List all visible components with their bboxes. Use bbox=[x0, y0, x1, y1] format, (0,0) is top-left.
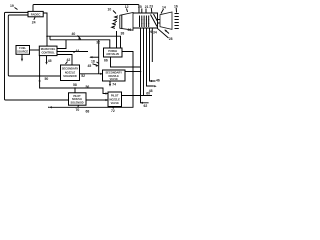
arrow into secondary valve line y=64.5 with label 45 bbox=[93, 64, 98, 66]
exhaust dashes bbox=[175, 13, 179, 15]
PILOT NOZZLE SOLENOID box bbox=[69, 93, 87, 105]
svg-text:36: 36 bbox=[128, 28, 132, 32]
wire: secondary output right to riser bbox=[125, 71, 141, 73]
svg-text:18: 18 bbox=[91, 60, 95, 64]
svg-text:44: 44 bbox=[76, 49, 80, 53]
transition duct diagonals bbox=[151, 15, 158, 27]
wire: purge valve bottom output to riser bbox=[111, 57, 141, 67]
wire: branch down from y=39 to y=44 run bbox=[50, 40, 110, 48]
wire: FADEC left lower to second vertical down to y=76 rail bbox=[8, 15, 60, 76]
wire: fuel source drain stub with arrow bbox=[21, 54, 23, 59]
wire: main fuel control drain stub with arrow bbox=[46, 56, 48, 63]
riser pipe 62 down to drain bbox=[141, 28, 149, 103]
svg-text:28: 28 bbox=[169, 37, 173, 41]
svg-text:VALVE: VALVE bbox=[110, 77, 119, 81]
wire: vertical from y44 run down to secondary valve top bbox=[98, 40, 100, 74]
junction node at control line branch bbox=[46, 35, 48, 37]
svg-text:58: 58 bbox=[73, 83, 77, 87]
svg-text:14: 14 bbox=[162, 6, 166, 10]
wire: drop from MFC bottom through rail down and right to pilot box bbox=[40, 56, 108, 94]
svg-text:NOZZLE: NOZZLE bbox=[110, 97, 121, 101]
svg-text:VALVE: VALVE bbox=[111, 101, 120, 105]
wire: drop into solenoid top bbox=[74, 88, 76, 93]
fuel nozzles in combustor bbox=[139, 16, 141, 28]
FADEC U1 box bbox=[28, 11, 43, 16]
svg-text:34: 34 bbox=[153, 31, 157, 35]
svg-text:NOZZLE: NOZZLE bbox=[65, 70, 76, 74]
wire: FADEC right down to MAIN FUEL CONTROL top bbox=[43, 13, 47, 46]
svg-text:40: 40 bbox=[72, 32, 76, 36]
riser pipe 46 bbox=[150, 28, 156, 81]
wire: pilot output right y=95.5 bbox=[122, 95, 153, 97]
svg-text:32: 32 bbox=[96, 41, 100, 45]
leader to label 28 bbox=[157, 28, 169, 38]
svg-text:70: 70 bbox=[76, 108, 80, 112]
svg-text:24: 24 bbox=[32, 21, 36, 25]
svg-text:12: 12 bbox=[125, 5, 129, 9]
wire: purge valve output right then down to pilot drain bbox=[50, 52, 134, 108]
label 70 below solenoid bbox=[77, 105, 80, 107]
svg-text:38: 38 bbox=[121, 32, 125, 36]
wire: left secondary to right secondary with arrow, label 52 bbox=[80, 73, 103, 75]
svg-text:62: 62 bbox=[144, 104, 148, 108]
svg-text:52: 52 bbox=[81, 74, 85, 78]
svg-text:MAIN FUEL: MAIN FUEL bbox=[41, 47, 56, 51]
svg-text:SOURCE: SOURCE bbox=[17, 50, 28, 54]
svg-text:SOLENOID: SOLENOID bbox=[70, 101, 83, 104]
svg-text:21: 21 bbox=[145, 5, 149, 9]
svg-text:23: 23 bbox=[149, 5, 153, 9]
wire: FADEC left upper to far-left vertical down to bottom rail bbox=[5, 12, 69, 100]
svg-text:CONTROL: CONTROL bbox=[41, 51, 55, 55]
SECONDARY NOZZLE SOLENOID box bbox=[61, 65, 80, 81]
riser pipe to pilot line bbox=[143, 28, 145, 96]
FUEL SOURCE box bbox=[16, 46, 30, 55]
wire: control right output y=50 bbox=[57, 51, 88, 53]
svg-text:48: 48 bbox=[149, 89, 153, 93]
svg-text:74: 74 bbox=[112, 83, 116, 87]
svg-text:SECONDARY: SECONDARY bbox=[62, 67, 79, 71]
junction node above pilot solenoid bbox=[74, 87, 76, 89]
svg-text:66: 66 bbox=[104, 59, 108, 63]
SECONDARY NOZZLE VALVE box bbox=[103, 70, 126, 81]
svg-text:FADEC: FADEC bbox=[31, 12, 42, 16]
engine: compressor bbox=[120, 13, 133, 31]
engine: inlet chevrons bbox=[115, 16, 118, 18]
svg-text:72: 72 bbox=[111, 109, 115, 113]
svg-text:FUEL: FUEL bbox=[19, 46, 26, 50]
svg-text:45: 45 bbox=[48, 59, 52, 63]
label 72 below pilot bbox=[113, 107, 114, 109]
svg-text:AIR VALVE: AIR VALVE bbox=[106, 53, 119, 56]
PILOT NOZZLE VALVE box bbox=[108, 92, 122, 107]
wire: secondary bottom stub with arrow bbox=[109, 81, 111, 85]
label 24 bbox=[34, 17, 35, 20]
riser pipe 48 bbox=[147, 28, 154, 86]
svg-text:16: 16 bbox=[174, 5, 178, 9]
turbine bbox=[160, 12, 172, 29]
junction at y76 rail with drop to pilot bbox=[39, 75, 41, 77]
arrow under turbine bbox=[165, 30, 169, 34]
wire: control right output y=55 down into left secondary box bbox=[57, 55, 72, 66]
svg-text:45: 45 bbox=[88, 64, 92, 68]
svg-text:25: 25 bbox=[138, 5, 142, 9]
junction node at riser bbox=[140, 71, 142, 73]
PURGE AIR VALVE box bbox=[104, 48, 123, 57]
svg-text:19: 19 bbox=[10, 4, 14, 8]
engine: combustor case bbox=[133, 13, 158, 28]
MAIN FUEL CONTROL box bbox=[39, 46, 57, 56]
wire: control to purge valve upper run y=39 bbox=[47, 36, 121, 48]
svg-text:SOLENOID: SOLENOID bbox=[63, 74, 77, 78]
svg-text:50: 50 bbox=[45, 77, 49, 81]
svg-text:PILOT: PILOT bbox=[111, 94, 119, 98]
wire: engine bleed down to purge valve bbox=[116, 31, 118, 48]
wire: solenoid output to pilot valve bbox=[86, 99, 108, 101]
wire: FADEC top up and right to engine bbox=[33, 5, 139, 14]
svg-text:68: 68 bbox=[86, 110, 90, 114]
sensor stub bbox=[151, 28, 153, 62]
arrow into secondary valve line y=57 bbox=[90, 56, 99, 58]
wire: fuel source to main fuel control bbox=[30, 49, 40, 51]
svg-text:46: 46 bbox=[156, 79, 160, 83]
arrow into pilot box from bottom rail bbox=[106, 99, 109, 101]
svg-text:10: 10 bbox=[108, 8, 112, 12]
